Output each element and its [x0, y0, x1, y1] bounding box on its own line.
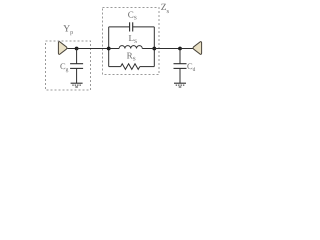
- wire: node A down to Cg: [76, 49, 78, 64]
- dashed box middle (crystal equivalent Zs): [103, 8, 160, 75]
- node: left rail junction dot: [107, 47, 111, 51]
- ground (right): [174, 82, 186, 84]
- wire: top branch left: [109, 26, 130, 28]
- capacitor Cs: [129, 22, 131, 31]
- ground (left): [71, 82, 83, 84]
- node: right rail junction dot: [152, 47, 156, 51]
- resistor Rs zigzag: [121, 64, 140, 70]
- inductor Ls: [119, 46, 142, 49]
- node A junction dot: [75, 47, 79, 51]
- buffer pin left (triangle): [58, 42, 67, 55]
- wire: crystal right rail to node B: [154, 48, 180, 50]
- buffer pin right (triangle, mirrored): [193, 42, 202, 55]
- wire: middle branch left lead: [109, 48, 119, 50]
- capacitor Cg: [70, 63, 83, 65]
- wire: left pin apex to node A: [67, 48, 76, 50]
- node B junction dot: [178, 47, 182, 51]
- right rail: [153, 27, 155, 67]
- wire: Cd to ground: [179, 68, 181, 83]
- wire: node B down to Cd: [179, 49, 181, 64]
- capacitor Cd: [174, 63, 187, 65]
- wire: top branch right: [133, 26, 155, 28]
- wire: node A to crystal left rail: [77, 48, 109, 50]
- dashed box left (oscillator pin group): [46, 41, 91, 90]
- crystal inner network: left rail: [108, 27, 110, 67]
- wire: Cg to ground: [76, 68, 78, 83]
- wire: bottom branch left lead: [109, 66, 121, 68]
- wire: middle branch right lead: [142, 48, 154, 50]
- wire: bottom branch right lead: [140, 66, 155, 68]
- wire: node B to right pin apex: [180, 48, 193, 50]
